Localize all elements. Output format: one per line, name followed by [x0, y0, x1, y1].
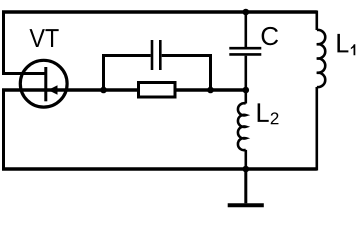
- inductor L1: [317, 11, 325, 171]
- node: RC left junction: [100, 87, 107, 94]
- node: top rail / C junction: [243, 9, 250, 16]
- wire left vertical from top rail: [2, 11, 5, 74]
- node: bottom rail / ground junction: [243, 166, 250, 173]
- inductor L2: [238, 88, 246, 170]
- wire left vertical to bottom rail: [2, 90, 5, 169]
- wire gate/middle lead: [2, 88, 246, 91]
- wire bottom rail: [2, 167, 317, 171]
- wire VT drain lead: [2, 72, 46, 75]
- capacitor (unlabeled, in parallel with resistor): [152, 40, 160, 70]
- wire RC right branch: [162, 56, 211, 91]
- node: RC right junction: [207, 87, 214, 94]
- label L2: [258, 103, 279, 124]
- resistor (unlabeled): [139, 83, 176, 98]
- label L1: [337, 34, 355, 55]
- label VT: [30, 29, 59, 47]
- capacitor C: [229, 11, 261, 91]
- wire RC left branch: [104, 56, 151, 91]
- label C: [262, 27, 278, 45]
- transistor VT: [20, 60, 67, 107]
- wire top rail: [2, 10, 317, 13]
- wire ground stub: [244, 168, 247, 203]
- ground: [228, 203, 264, 207]
- node: C / L2 junction: [243, 87, 250, 94]
